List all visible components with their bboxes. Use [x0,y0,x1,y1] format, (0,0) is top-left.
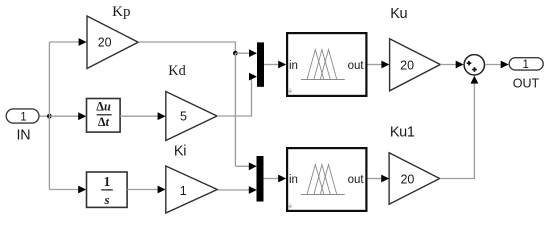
wire gain Ku to sum [440,64,457,66]
arrowhead into gain Ki [158,186,166,194]
svg-text:s: s [103,192,109,207]
junction dot at branch node [47,114,52,119]
svg-text:Δu: Δu [96,100,111,114]
wire gain Kp output to mux1 [138,42,235,53]
arrowhead into output port [501,61,509,69]
arrowhead into gain Ku [381,61,389,69]
svg-text:Ku: Ku [390,6,407,22]
wire fuzzy controller 1 to gain Ku [368,64,383,66]
gain Ku (triangle, value 20) [390,39,441,91]
svg-text:1: 1 [104,174,111,189]
arrowhead into fuzzy controller 1 [278,61,286,69]
gain Kp (triangle, value 20) [87,16,138,69]
gain Ki (triangle, value 1) [166,166,218,213]
membership function icon 2 [301,165,345,195]
wire gain Ku1 up to sum bottom input [440,84,475,179]
wire junction to mux1 input 1 [235,52,250,54]
input port IN (block 1) [6,109,39,124]
membership function icon 1 [301,50,345,80]
output port OUT (block 1) [509,58,543,71]
wire to mux2 input 1 [235,165,250,167]
arrowhead mux1 input 2 [249,73,257,81]
sum block (circle, ++) [464,55,484,75]
integrator block 1/s [87,172,128,207]
svg-text:Kd: Kd [168,63,185,79]
arrowhead into gain Kd [158,112,166,120]
svg-text:20: 20 [400,58,414,72]
wire gain Kd output up to mux1 input 2 [217,77,252,116]
wire derivative to gain Kd [120,115,159,117]
gain Kd (triangle, value 5) [166,92,217,141]
svg-text:IN: IN [17,128,31,144]
svg-text:5: 5 [180,109,187,123]
arrowhead into sum bottom input [471,76,479,84]
arrowhead into integrator block [78,186,86,194]
svg-text:in: in [289,174,298,186]
mux1 (top mux bar) [257,42,264,86]
svg-text:Ku1: Ku1 [390,125,415,141]
svg-text:20: 20 [98,35,112,49]
svg-text:OUT: OUT [513,77,540,91]
wire integrator to gain Ki [127,189,159,191]
wire gain Ki output to mux2 input 2 [217,189,250,191]
arrowhead mux2 input 1 [249,162,257,170]
wire mux2 to fuzzy controller 2 [264,178,279,180]
mux2 (bottom mux bar) [257,156,264,202]
arrowhead into sum left input [456,61,464,69]
arrowhead mux2 input 2 [249,186,257,194]
badge fuzzy 2 [288,204,292,208]
wire mux1 to fuzzy controller 1 [264,64,279,66]
wire sum to output port [485,64,502,66]
svg-text:Δt: Δt [98,115,110,129]
svg-text:in: in [289,60,298,72]
arrowhead into gain Ku1 [381,175,389,183]
svg-text:1: 1 [522,59,528,71]
svg-text:out: out [348,60,365,72]
wire to integrator block [49,189,79,191]
wire Kp signal down to mux2 [234,53,236,166]
wire fuzzy controller 2 to gain Ku1 [368,178,383,180]
svg-text:20: 20 [400,172,414,186]
junction dot on Kp signal [233,51,238,56]
svg-text:1: 1 [20,112,26,124]
arrowhead into fuzzy controller 2 [278,175,286,183]
wire from IN to junction [39,115,49,117]
svg-text:Ki: Ki [174,144,186,160]
plus sign left input [467,61,472,66]
fuzzy logic controller 2 [287,148,366,211]
arrowhead mux1 input 1 [249,49,257,57]
plus sign bottom input [472,67,477,72]
arrowhead into gain Kp [79,38,87,46]
fuzzy logic controller 1 [287,33,366,96]
svg-text:Kp: Kp [112,4,130,20]
wire to gain Kp [49,41,80,43]
arrowhead into derivative block [78,112,86,120]
badge fuzzy 1 [288,89,292,93]
wire to derivative block [49,115,79,117]
svg-text:1: 1 [180,184,187,198]
gain Ku1 (triangle, value 20) [389,153,440,204]
derivative block du/dt [87,99,121,133]
svg-text:out: out [348,174,365,186]
wire vertical branch line [48,42,50,190]
